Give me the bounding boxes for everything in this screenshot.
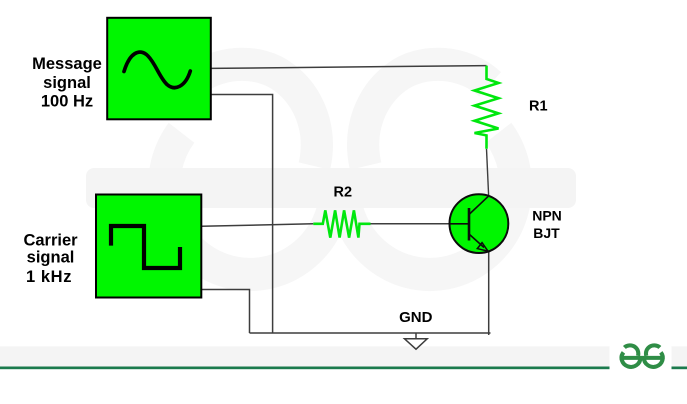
svg-text:R1: R1 — [529, 98, 548, 114]
transistor Q1 NPN BJT — [450, 194, 509, 253]
svg-text:BJT: BJT — [533, 225, 560, 241]
resistor R1 — [475, 66, 499, 149]
svg-text:100 Hz: 100 Hz — [41, 93, 93, 111]
svg-text:Carrier: Carrier — [23, 232, 78, 250]
svg-text:1 kHz: 1 kHz — [26, 268, 72, 286]
resistor R2 — [313, 210, 370, 237]
label: Message signal 100 Hz — [32, 55, 102, 111]
bottom gray band — [0, 346, 610, 366]
message signal source box — [107, 18, 211, 120]
carrier signal source box — [96, 195, 201, 298]
wire: carrier box bottom to rail — [201, 290, 249, 334]
wire: message box lower to bottom rail — [211, 95, 273, 334]
wire: R1 bottom to transistor collector — [487, 149, 489, 195]
ground symbol — [405, 333, 428, 349]
green rule left — [0, 367, 610, 370]
wire: carrier box to R2 — [201, 224, 313, 227]
svg-text:R2: R2 — [334, 184, 353, 200]
wire: R2 to transistor base — [371, 223, 451, 225]
green rule right — [672, 367, 687, 370]
wire: transistor emitter to rail — [488, 252, 490, 335]
square wave symbol — [111, 226, 180, 268]
svg-text:signal: signal — [27, 249, 75, 267]
bottom gray band right part — [672, 346, 687, 366]
wire: message box to R1 top — [211, 66, 487, 69]
geeksforgeeks logo — [620, 345, 665, 367]
svg-text:GND: GND — [399, 309, 433, 326]
wire: bottom rail — [250, 332, 491, 334]
svg-text:Message: Message — [32, 55, 102, 73]
label: NPN BJT — [532, 208, 562, 241]
svg-text:signal: signal — [43, 74, 91, 92]
sine wave symbol — [124, 52, 190, 87]
svg-text:NPN: NPN — [532, 208, 562, 224]
watermark — [164, 64, 516, 274]
label: Carrier signal 1 kHz — [23, 232, 78, 287]
